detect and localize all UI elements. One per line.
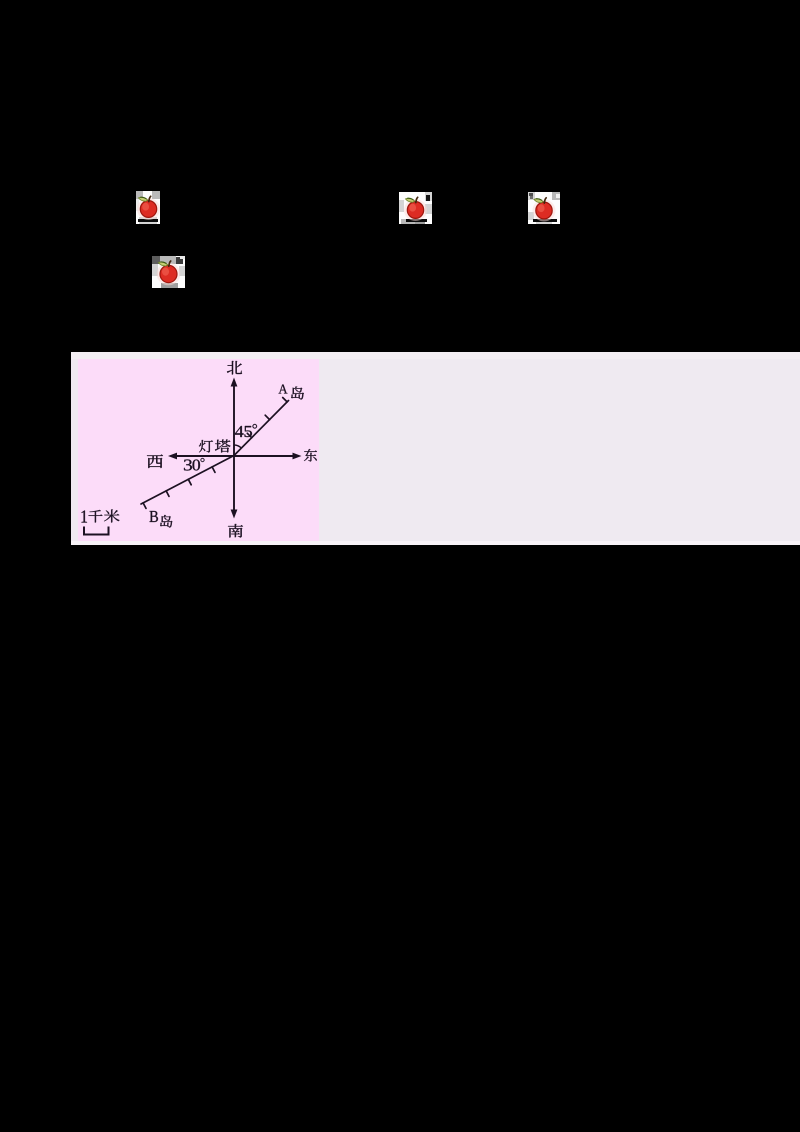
apple fruit body: [160, 265, 177, 282]
apple fruit body: [140, 201, 156, 218]
worksheet image background: [71, 352, 800, 545]
wire vertical N-S axis: [233, 385, 235, 512]
wire horizontal W-E axis: [175, 455, 295, 457]
apple leaf: [139, 197, 148, 201]
apple image 3: [528, 192, 560, 224]
apple image 1: [136, 191, 160, 224]
label island B: B岛: [149, 511, 157, 522]
apple stem: [169, 261, 171, 266]
45 degree angle arc: [234, 445, 241, 448]
label East 东: [304, 449, 317, 462]
apple fruit body: [407, 202, 423, 219]
label lighthouse 灯塔: [199, 440, 213, 453]
label West 西: [147, 454, 163, 468]
apple image 2: [399, 192, 432, 224]
apple stem: [416, 197, 418, 202]
angle label 30 deg: [184, 460, 192, 471]
apple image 4: [152, 256, 185, 288]
wire line to island B: [141, 456, 234, 505]
label island A: A岛: [279, 384, 288, 393]
label South 南: [228, 524, 243, 538]
apple stem: [544, 198, 546, 203]
apple leaf: [159, 262, 168, 266]
pink diagram panel: [78, 359, 319, 541]
apple fruit body: [536, 202, 552, 219]
label North 北: [227, 361, 242, 374]
apple leaf: [534, 199, 543, 203]
apple stem: [149, 196, 151, 201]
scale bar bracket 1km: [84, 527, 109, 535]
scale label 1 千米: [82, 510, 88, 522]
apple leaf: [406, 198, 415, 202]
angle label 45 deg: [235, 426, 244, 437]
wire line to island A: [234, 401, 289, 456]
